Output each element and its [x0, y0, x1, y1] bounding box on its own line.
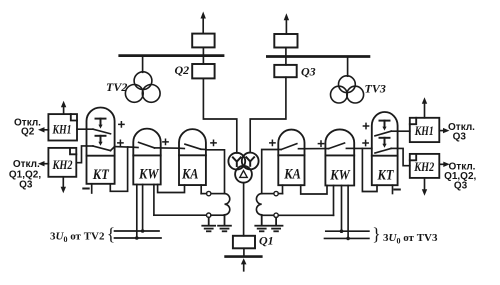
- KW right leg to upper 3U0 line: [341, 186, 343, 232]
- time relay KT left body: [87, 108, 115, 184]
- svg-text:3U0 от TV3: 3U0 от TV3: [383, 232, 438, 246]
- wire KW contact to KA: [161, 147, 179, 149]
- wire bus to breaker Q3: [285, 57, 287, 65]
- breaker box upper right: [274, 34, 297, 48]
- svg-text:КН1: КН1: [52, 122, 72, 137]
- generator arrow up: [241, 258, 247, 271]
- KA right contact: [278, 144, 304, 150]
- output relay KH1 right box: [410, 118, 440, 142]
- svg-text:Q1: Q1: [259, 234, 274, 248]
- wire KT contact2 to KW dome: [115, 146, 134, 149]
- junction dot upper left: [141, 229, 145, 233]
- grounding CT coil left: [225, 194, 230, 215]
- plus KT2 right: [363, 140, 368, 145]
- KW leg to bottom wire: [153, 185, 155, 216]
- KH1 right trip arrow: [439, 128, 449, 133]
- KT right contact 1: [375, 121, 398, 136]
- breaker Q1 box: [233, 236, 255, 249]
- svg-text:TV2: TV2: [106, 80, 127, 94]
- transformer T1 winding Y1: [228, 153, 245, 170]
- right busbar: [267, 55, 369, 58]
- U-link tap to KT right coil: [362, 148, 377, 191]
- feeder arrow right (to system): [284, 13, 289, 34]
- svg-text:КН2: КН2: [413, 159, 434, 174]
- wire bus to TV3: [347, 58, 349, 77]
- KW right leg to bottom wire: [333, 186, 335, 216]
- time relay KT right body: [372, 112, 398, 185]
- wire bus to TV2: [142, 57, 144, 72]
- voltage transformer TV3: [331, 76, 364, 103]
- KH1 left trip arrow: [38, 127, 48, 132]
- KT right minus stub: [392, 185, 394, 193]
- 3U0 lower line right: [325, 237, 369, 239]
- output relay KH1 left box: [48, 114, 77, 140]
- wire Q1 to generator bar: [243, 248, 245, 256]
- wire right KA contact tap down to right CT coil: [262, 150, 279, 194]
- wire right coil bottom to terminal: [261, 214, 263, 217]
- svg-text:Откл.: Откл.: [13, 159, 40, 170]
- junction dot lower right: [346, 237, 350, 241]
- KH1 left up arrow: [61, 101, 66, 114]
- wire terminal to right KA leg: [278, 193, 282, 195]
- U-link KA to KW right: [301, 185, 327, 194]
- svg-text:КА: КА: [181, 167, 199, 183]
- KA leg to terminal wire: [200, 185, 202, 194]
- svg-text:КТ: КТ: [92, 167, 110, 183]
- transformer T1 winding Y2: [242, 153, 259, 170]
- KA right leg up from terminal: [282, 185, 284, 193]
- KH2 right link to KT contact2: [398, 148, 410, 165]
- svg-text:Q2: Q2: [175, 63, 190, 77]
- breaker box upper left: [192, 34, 214, 48]
- svg-text:KW: KW: [138, 167, 159, 183]
- current relay KA right body: [278, 130, 304, 186]
- generator bar: [226, 255, 262, 258]
- KW right leg to lower 3U0 line: [347, 186, 349, 239]
- wire left coil top to test terminal: [211, 193, 225, 195]
- bottom wire left group: [154, 214, 207, 216]
- wire KA leg to terminal: [201, 193, 206, 195]
- left busbar: [120, 54, 223, 57]
- wire KT to KH1 right: [398, 130, 410, 132]
- wire terminal to coil bottom: [211, 214, 225, 216]
- junction dot upper right: [340, 229, 344, 233]
- test terminal bottom-right: [274, 213, 278, 217]
- ground under left terminal: [202, 217, 215, 231]
- 3U0 upper line right: [326, 230, 369, 232]
- power relay KW left body: [133, 129, 160, 185]
- test terminal top-left: [207, 191, 211, 195]
- plus KT1 right: [363, 123, 368, 128]
- KT left minus stub: [91, 184, 93, 193]
- KH2 left trip arrow: [38, 161, 48, 166]
- wire bus to breaker Q2: [202, 56, 204, 64]
- KT left contact 2: [87, 136, 115, 151]
- output relay KH2 right box: [410, 154, 440, 178]
- wire right coil top to test terminal: [262, 193, 274, 195]
- voltage transformer TV2: [125, 72, 160, 103]
- KH2 right trip arrow: [439, 162, 450, 167]
- svg-text:3U0 от TV2: 3U0 от TV2: [50, 231, 105, 245]
- KW leg to lower 3U0 line: [136, 185, 138, 239]
- KW left contact: [133, 142, 160, 148]
- KH1 right up arrow: [422, 97, 427, 118]
- KH2 left link to KT contact2: [76, 146, 86, 163]
- breaker Q2 box: [192, 64, 214, 78]
- svg-text:KW: KW: [329, 167, 350, 183]
- svg-text:}: }: [372, 224, 380, 244]
- KT right contact 2: [375, 138, 398, 153]
- wire KA to KW right: [305, 148, 326, 150]
- wire Q2 down-jog to transformer Y1: [203, 78, 236, 152]
- wire box to left bus: [202, 47, 204, 55]
- KH2 left down arrow: [61, 177, 66, 194]
- bottom wire right group: [278, 214, 333, 216]
- junction dot lower left: [135, 236, 139, 240]
- svg-text:Q3: Q3: [301, 64, 316, 78]
- KA left contact: [179, 144, 206, 149]
- svg-text:Q3: Q3: [454, 181, 468, 192]
- svg-text:Q3: Q3: [19, 179, 33, 190]
- plus KT2 left: [118, 140, 123, 145]
- feeder arrow left (to system): [201, 12, 206, 34]
- KW right contact: [325, 143, 354, 149]
- transformer T1 winding Delta: [235, 166, 252, 183]
- svg-text:Q3: Q3: [453, 132, 467, 143]
- 3U0 upper line left: [115, 230, 160, 232]
- wire KA contact tap down to left CT coil: [206, 150, 225, 194]
- svg-text:{: {: [107, 224, 115, 244]
- plus KW left: [163, 139, 168, 144]
- KW leg to upper 3U0 line: [142, 185, 144, 232]
- U-link KW to KA: [158, 185, 185, 193]
- svg-text:Q2: Q2: [21, 127, 35, 138]
- KH2 right down arrow: [422, 178, 427, 196]
- wire Q3 down-jog to transformer Y2: [250, 77, 286, 153]
- test terminal bottom-left: [207, 213, 211, 217]
- plus KW right: [318, 141, 323, 146]
- plus KT1 left: [119, 122, 124, 127]
- output relay KH2 left box: [48, 148, 76, 177]
- wire Delta to Q1: [243, 183, 245, 236]
- KT left contact 1: [77, 119, 111, 134]
- wire KW to KT right with tap: [354, 147, 372, 149]
- breaker Q3 box: [274, 65, 296, 77]
- grounding CT coil right: [256, 194, 261, 215]
- svg-text:КН2: КН2: [52, 157, 73, 172]
- minus label KT right: [394, 189, 399, 191]
- svg-text:КА: КА: [283, 167, 301, 183]
- U-link KT coil to contact bus: [110, 147, 127, 191]
- plus KA right: [270, 140, 275, 145]
- ground under right coil: [255, 215, 268, 231]
- wire box to right bus: [285, 48, 287, 56]
- current relay KA left body: [179, 129, 206, 185]
- svg-text:TV3: TV3: [365, 82, 386, 96]
- svg-text:КТ: КТ: [377, 168, 395, 184]
- svg-text:КН1: КН1: [414, 123, 434, 138]
- power relay KW right body: [325, 129, 354, 185]
- test terminal top-right: [274, 191, 278, 195]
- minus label KT left: [83, 188, 88, 190]
- 3U0 lower line left: [115, 237, 162, 239]
- plus KA left: [211, 140, 216, 145]
- ground under left coil: [218, 215, 231, 231]
- ground under right terminal: [270, 218, 283, 232]
